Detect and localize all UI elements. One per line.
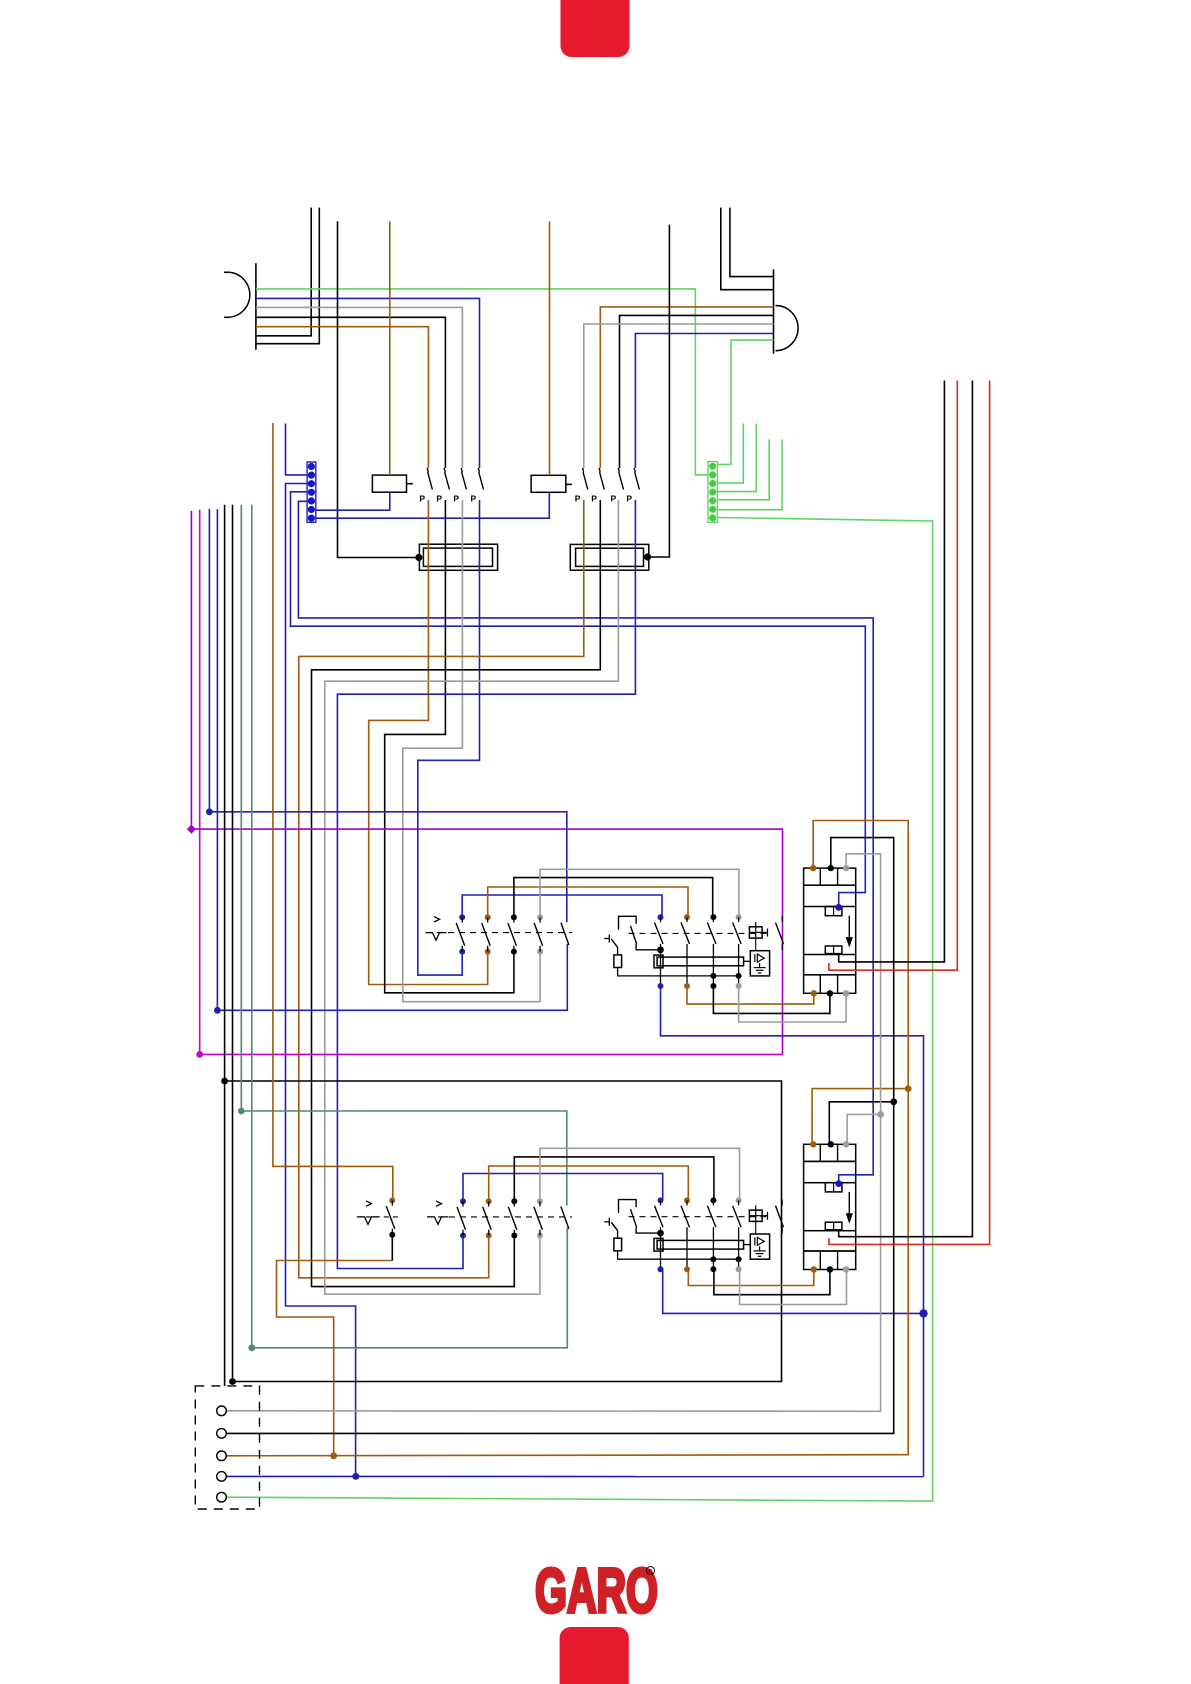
red header block bbox=[561, 0, 630, 57]
wire blue F4p1 out bbox=[663, 1269, 924, 1313]
circuit breaker Q3 linkage bbox=[357, 1216, 399, 1218]
coil K1 brown lead bbox=[389, 221, 391, 475]
connector X2 right arc bbox=[776, 306, 799, 351]
wire black K4 pilot bbox=[839, 381, 973, 1237]
RCD F3 coupling symbol bbox=[749, 922, 767, 951]
wire X3 t6 blue to K1 bbox=[316, 492, 390, 510]
terminal block X4 green PE bbox=[708, 462, 717, 523]
wire gray K3 feed long bbox=[226, 854, 884, 1412]
breaker F1 pole 4 P-switch bbox=[471, 468, 484, 504]
breaker F1 pole 1 P-switch bbox=[419, 468, 432, 504]
wire black loop enclosure bbox=[225, 1081, 782, 1382]
RCD F4 coupling symbol bbox=[749, 1205, 767, 1234]
wire PE fan 1 bbox=[717, 424, 743, 484]
svg-text:P: P bbox=[591, 494, 597, 504]
wire brown Q2p2-F4p2 bbox=[489, 1166, 689, 1201]
wire PE green main bbox=[256, 289, 708, 475]
RCD F3 aux contact bbox=[619, 916, 664, 953]
svg-text:P: P bbox=[453, 494, 459, 504]
circuit breaker Q3 pole bbox=[386, 1197, 395, 1237]
wire PE fan 2 bbox=[717, 424, 756, 492]
breaker F2 pole 1 P-switch bbox=[575, 468, 588, 504]
RCD F4 trip relay bbox=[750, 1234, 769, 1259]
circuit breaker Q2 linkage bbox=[427, 1216, 572, 1218]
wire red K3 pilot bbox=[829, 381, 957, 971]
RCD F3 poles bbox=[655, 914, 742, 989]
RCD F3 test button bbox=[604, 935, 741, 979]
svg-text:P: P bbox=[419, 494, 425, 504]
coil K1 box bbox=[372, 475, 412, 492]
wire black F1p2 to Q1p3 bbox=[385, 500, 514, 993]
contactor K3 body bbox=[804, 868, 856, 993]
wire gray F1p3 to Q1p4 bbox=[403, 500, 540, 1002]
wire blue N1 to Q1 pole5 top bbox=[206, 509, 567, 922]
wire black F4p3 out bbox=[714, 1269, 830, 1294]
wire blue N2 from Q1 pole5 bottom bbox=[214, 509, 567, 1013]
wire black riser R1 bbox=[721, 208, 774, 290]
wire blue Q1p1-F3p1 bbox=[462, 895, 662, 917]
wire X3 t7 blue to K2 bbox=[316, 492, 550, 518]
wire black Q3 bottom stub bbox=[391, 1235, 393, 1260]
wire blue F1p4 to Q1p1 bbox=[418, 500, 480, 975]
wire R blue feed bbox=[635, 334, 773, 469]
wire blue Q2p1-F4p1 bbox=[463, 1174, 663, 1202]
breaker F1 pole 3 P-switch bbox=[453, 468, 466, 504]
red footer block bbox=[560, 1627, 629, 1684]
terminal box X5 dashed bbox=[195, 1386, 259, 1509]
wire brown supply to Q3 bbox=[273, 423, 393, 1200]
connector X1 left arc bbox=[224, 272, 250, 317]
contactor K4 terminals bbox=[810, 1141, 849, 1273]
wire PE fan 4 bbox=[717, 439, 782, 509]
wire gray F3p4 out bbox=[739, 986, 847, 1022]
wire X3 t2 blue bbox=[286, 424, 308, 475]
circuit breaker Q1 symbol bbox=[426, 917, 447, 941]
svg-text:GARO: GARO bbox=[535, 1557, 658, 1627]
wire PE long run bbox=[226, 518, 932, 1502]
wire black riser L2 bbox=[256, 208, 319, 344]
wire brown F4p2 out bbox=[688, 1269, 814, 1286]
wire black K3 pilot bbox=[839, 381, 945, 962]
breaker F1 pole 2 P-switch bbox=[436, 468, 449, 504]
wire brown K3 feed long bbox=[226, 821, 911, 1456]
RCD F3 sensing toroid bbox=[654, 955, 750, 968]
wire R green feed bbox=[717, 340, 773, 464]
wire L2 black feed bbox=[256, 317, 446, 468]
wire X3 t4 blue to K3 coil bbox=[291, 492, 866, 908]
connector X2 right bar bbox=[773, 269, 775, 353]
contactor K3 terminals bbox=[810, 865, 849, 997]
RCD F4 sensing toroid bbox=[654, 1238, 750, 1251]
wire brown F1p1 to Q1p2 bbox=[369, 500, 488, 985]
svg-text:P: P bbox=[611, 494, 617, 504]
wire blue X5 t4 run bbox=[226, 1473, 923, 1480]
wire blue F3p1 N run bbox=[661, 985, 928, 1477]
wire black riser R2 bbox=[730, 208, 774, 277]
wire red K4 pilot bbox=[829, 381, 990, 1245]
RCD F4 aux contact bbox=[619, 1200, 664, 1237]
coil K2 brown lead bbox=[549, 221, 551, 475]
terminal box X5 contacts bbox=[217, 1406, 227, 1502]
svg-text:P: P bbox=[436, 494, 442, 504]
wire brown F3p2 out bbox=[687, 986, 814, 1004]
RCD F4 pole5 switch bbox=[776, 1200, 784, 1234]
circuit breaker Q2 poles bbox=[457, 1198, 569, 1238]
breaker F2 pole 3 P-switch bbox=[611, 468, 624, 504]
wire brown Q3 out bbox=[277, 1261, 393, 1460]
wire black 1 long bbox=[221, 505, 228, 1386]
wire X3 t3 blue long bbox=[286, 484, 360, 1480]
circuit breaker Q1 linkage bbox=[426, 932, 572, 934]
wire N blue feed left bbox=[256, 298, 480, 468]
RCD F3 linkage bbox=[629, 932, 769, 934]
GARO logo bbox=[535, 1557, 658, 1627]
wire purple 2 bbox=[196, 510, 782, 1058]
wire black F3p3 out bbox=[713, 986, 830, 1013]
wire black K4 feed bbox=[829, 1102, 893, 1145]
svg-text:P: P bbox=[575, 494, 581, 504]
connector X1 left bar bbox=[255, 263, 257, 350]
wire L1 brown feed bbox=[256, 327, 429, 468]
circuit breaker Q1 poles bbox=[456, 914, 569, 954]
wire green dark 1 to Q2 pole5 bbox=[238, 505, 567, 1206]
wire R brown feed bbox=[600, 307, 773, 468]
wire black F2p2 to Q2p3 bbox=[312, 500, 601, 1287]
breaker F2 pole 2 P-switch bbox=[591, 468, 604, 504]
circuit breaker Q3 symbol bbox=[358, 1201, 379, 1225]
contactor K4 body bbox=[804, 1144, 856, 1269]
fuse box T1 bbox=[419, 544, 497, 570]
RCD F4 test button bbox=[604, 1218, 741, 1262]
terminal block X3 blue bbox=[307, 462, 316, 522]
wire gray Q2p4-F4p4 bbox=[540, 1148, 740, 1201]
wire purple 1 loop bbox=[187, 511, 783, 1055]
wire brown Q1p2-F3p2 bbox=[488, 887, 688, 917]
breaker F2 pole 4 P-switch bbox=[626, 468, 639, 504]
wire black tap T1 bbox=[338, 221, 423, 561]
registered trademark symbol bbox=[647, 1567, 655, 1576]
wire green dark 2 from Q2 pole5 bbox=[248, 505, 567, 1352]
wire gray F2p3 to Q2p4 bbox=[325, 500, 619, 1294]
svg-text:P: P bbox=[471, 494, 477, 504]
RCD F3 trip relay bbox=[750, 951, 769, 976]
svg-text:P: P bbox=[626, 494, 632, 504]
fuse box T2 bbox=[570, 544, 649, 570]
wire black Q1p3-F3p3 bbox=[514, 878, 713, 918]
wire brown F2p1 to Q2p2 bbox=[299, 500, 584, 1278]
RCD F4 poles bbox=[655, 1197, 742, 1272]
RCD F3 pole5 switch bbox=[776, 916, 784, 950]
wire black Q2p3-F4p3 bbox=[514, 1157, 714, 1201]
RCD F4 linkage bbox=[629, 1216, 769, 1218]
wire gray K4 feed bbox=[847, 1114, 881, 1144]
wire black 2 long bbox=[229, 505, 236, 1385]
wire black K3 feed long bbox=[226, 838, 897, 1434]
wire black tap T2 bbox=[644, 225, 669, 561]
wire X3 t5 blue to K4 coil bbox=[298, 501, 873, 1183]
wire brown K4 feed bbox=[812, 1089, 908, 1145]
wire gray F4p4 out bbox=[740, 1269, 847, 1304]
wire black riser L1 bbox=[256, 208, 311, 336]
wire R black feed bbox=[620, 315, 774, 468]
wire gray Q1p4-F3p4 bbox=[540, 869, 739, 917]
coil K2 box bbox=[531, 475, 572, 492]
wire blue F2p4 to Q2p1 bbox=[337, 500, 635, 1269]
wire R gray feed bbox=[584, 324, 774, 468]
svg-text:R: R bbox=[648, 1569, 653, 1575]
wire PE fan 3 bbox=[717, 439, 769, 500]
wire L3 gray feed bbox=[256, 307, 463, 468]
circuit breaker Q2 symbol bbox=[428, 1201, 449, 1225]
